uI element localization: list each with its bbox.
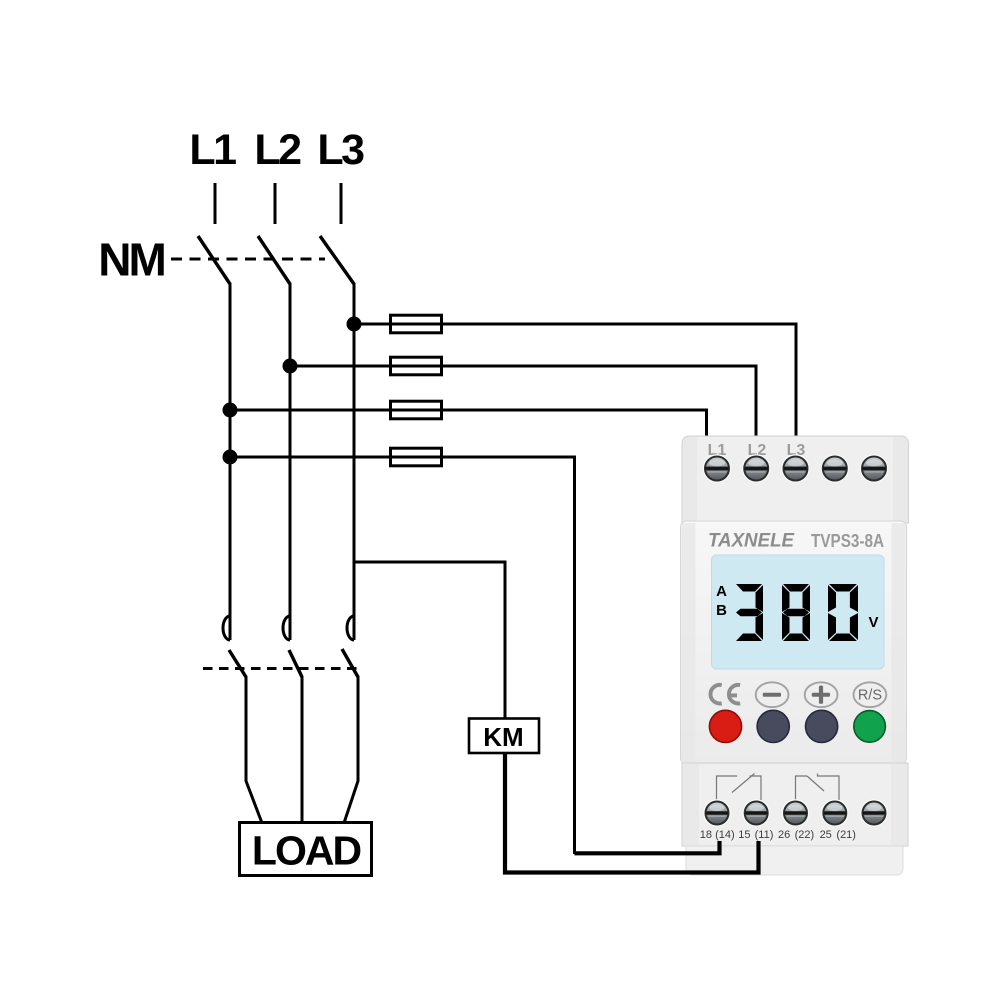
svg-text:L2: L2 bbox=[254, 126, 301, 174]
wire pole 1 to LOAD bbox=[246, 676, 262, 823]
wire pole 2 to LOAD bbox=[301, 676, 304, 823]
terminal screw bottom 3 bbox=[783, 800, 809, 826]
pushbutton dark 1 bbox=[757, 710, 789, 742]
fuse F3 bbox=[391, 401, 442, 419]
wire L1 supply stub bbox=[214, 183, 217, 224]
terminal screw top 3 bbox=[782, 455, 809, 482]
svg-text:26: 26 bbox=[778, 829, 790, 841]
svg-text:(21): (21) bbox=[836, 829, 856, 841]
device DIN foot bbox=[686, 846, 903, 875]
svg-text:KM: KM bbox=[483, 722, 523, 752]
svg-text:25: 25 bbox=[820, 829, 832, 841]
LCD display bbox=[712, 555, 885, 669]
wire fuse F1 feed (L3 to device L3) bbox=[354, 324, 796, 438]
button label minus bbox=[756, 682, 789, 707]
svg-text:TVPS3-8A: TVPS3-8A bbox=[811, 531, 884, 551]
svg-text:18: 18 bbox=[700, 829, 712, 841]
terminal screw bottom 5 bbox=[861, 800, 887, 826]
terminal screw top 1 bbox=[704, 455, 731, 482]
terminal screw top 4 bbox=[821, 455, 848, 482]
terminal screw bottom 4 bbox=[822, 800, 848, 826]
terminal screw top 5 bbox=[861, 455, 888, 482]
svg-text:LOAD: LOAD bbox=[252, 828, 361, 874]
junction dot L1/F4 bbox=[223, 450, 238, 465]
svg-text:B: B bbox=[716, 602, 727, 619]
breaker NM pole 3 blade bbox=[320, 236, 354, 284]
LOAD box bbox=[240, 823, 372, 876]
relay U1 (TVPS3-8A) device bbox=[681, 436, 909, 875]
junction dot L1/F3 bbox=[223, 403, 238, 418]
terminal screw top 2 bbox=[743, 455, 770, 482]
pushbutton red bbox=[709, 710, 741, 742]
button label plus bbox=[805, 682, 838, 707]
contactor KM pole 1 fixed contact arc bbox=[223, 616, 230, 640]
wire L1 vertical bbox=[229, 283, 232, 640]
wire fuse F4 feed (L1 to terminal 18) bbox=[230, 457, 575, 854]
svg-text:L3: L3 bbox=[317, 126, 364, 174]
wire pole 3 to LOAD bbox=[344, 676, 358, 823]
svg-text:(22): (22) bbox=[795, 829, 815, 841]
contactor coil KM box bbox=[469, 719, 539, 754]
junction dot L2/F2 bbox=[283, 359, 298, 374]
contactor KM pole 3 fixed contact arc bbox=[347, 616, 354, 640]
wire terminal 15 to KM coil bbox=[505, 753, 759, 873]
fuse F1 bbox=[391, 315, 442, 333]
wire L3 supply stub bbox=[340, 183, 343, 224]
LCD digit 0 bbox=[828, 584, 858, 641]
contactor KM pole 2 fixed contact arc bbox=[283, 616, 290, 640]
device top terminal block bbox=[682, 436, 909, 523]
wire fuse F2 feed (L2 to device L2) bbox=[290, 366, 756, 438]
breaker NM dashed link bbox=[171, 258, 325, 261]
wire L3 vertical bbox=[353, 283, 356, 640]
pushbutton dark 2 bbox=[806, 710, 838, 742]
relay contact symbol 26-25 bbox=[796, 774, 840, 803]
LCD digit 8 bbox=[782, 584, 810, 641]
fuse F4 bbox=[391, 448, 442, 466]
junction dot L3/F1 bbox=[347, 317, 362, 332]
breaker NM pole 1 blade bbox=[198, 236, 230, 284]
svg-text:L1: L1 bbox=[189, 126, 236, 174]
button label R/S bbox=[854, 682, 887, 707]
svg-text:R/S: R/S bbox=[858, 688, 882, 704]
svg-text:A: A bbox=[716, 583, 727, 600]
device main body bbox=[681, 521, 907, 764]
svg-text:(14): (14) bbox=[715, 829, 735, 841]
contactor KM pole 2 blade bbox=[289, 650, 302, 677]
pushbutton green bbox=[854, 711, 886, 743]
wire terminal 18 to F4 bbox=[575, 841, 720, 853]
wire fuse F3 feed (L1 to device L1) bbox=[230, 410, 707, 438]
wire KM coil feed from L3 bbox=[354, 562, 505, 718]
breaker NM pole 2 blade bbox=[258, 236, 290, 284]
svg-text:NM: NM bbox=[98, 234, 164, 286]
LCD digit 3 bbox=[736, 584, 763, 641]
relay contact symbol 18-15 bbox=[717, 774, 762, 803]
device bottom terminal block bbox=[682, 763, 908, 846]
terminal screw bottom 1 bbox=[704, 800, 730, 826]
contactor KM pole 3 blade bbox=[342, 649, 358, 677]
contactor KM dashed link bbox=[203, 667, 359, 670]
svg-text:TAXNELE: TAXNELE bbox=[708, 531, 795, 552]
wire L2 supply stub bbox=[274, 183, 277, 224]
wire L2 vertical bbox=[289, 283, 292, 640]
terminal screw bottom 2 bbox=[743, 800, 769, 826]
svg-text:15: 15 bbox=[738, 829, 750, 841]
CE mark bbox=[710, 685, 740, 704]
contactor KM pole 1 blade bbox=[229, 650, 246, 677]
fuse F2 bbox=[391, 357, 442, 375]
svg-text:(11): (11) bbox=[755, 829, 774, 841]
svg-text:V: V bbox=[868, 614, 878, 631]
